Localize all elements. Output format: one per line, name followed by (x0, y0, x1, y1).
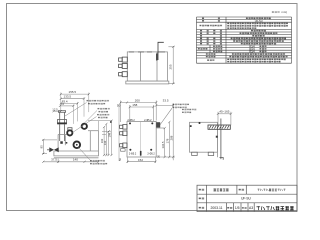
front view mounting holes (129, 122, 153, 150)
svg-text:37.5: 37.5 (51, 157, 57, 161)
front view right dimensions (157, 122, 176, 157)
left view right dims (88, 121, 112, 156)
side view feet (192, 152, 214, 155)
left view small bolt (60, 141, 63, 144)
svg-text:140: 140 (73, 157, 78, 161)
spec table grid (197, 17, 292, 63)
title block label 尺度 (227, 207, 232, 209)
left view bottom dims (43, 159, 98, 164)
dimension end ticks (42, 93, 232, 163)
svg-text:2-Φ5.2: 2-Φ5.2 (147, 153, 155, 156)
front view hole labels (127, 119, 155, 155)
callout solar return (87, 100, 110, 102)
front view body (127, 122, 156, 158)
top view left connectors (119, 57, 128, 77)
title block label 型式 (199, 197, 204, 199)
svg-text:A3: A3 (249, 206, 253, 210)
title block label 品名 (239, 189, 244, 191)
title block label 名称 (199, 189, 204, 191)
svg-text:200: 200 (135, 99, 140, 103)
side view wall bracket bar (208, 125, 230, 129)
svg-text:152: 152 (138, 158, 143, 162)
dimension 33.5 (156, 103, 173, 160)
svg-text:50: 50 (117, 103, 121, 107)
side view top screw dot (199, 122, 201, 124)
company name リンナイ株式会社 (257, 206, 294, 210)
svg-text:1/5: 1/5 (235, 206, 240, 210)
svg-text:33.5: 33.5 (163, 99, 169, 103)
side view body (190, 122, 218, 157)
svg-text:2-Φ5.2: 2-Φ5.2 (129, 153, 137, 156)
svg-text:2-Φ5.2: 2-Φ5.2 (127, 119, 135, 122)
front view left extension line (118, 104, 120, 161)
svg-text:45~165: 45~165 (219, 109, 229, 113)
svg-text:85: 85 (39, 145, 43, 149)
front view bottom dimensions (128, 157, 156, 163)
dimension 45-165 (218, 112, 231, 126)
top view body (126, 52, 169, 84)
dimension 200 (121, 101, 157, 123)
top view louver marks (129, 51, 165, 53)
svg-text:30: 30 (157, 155, 161, 159)
units note (272, 11, 280, 13)
title block name 外形寸法図 (214, 189, 229, 192)
svg-text:132.5: 132.5 (161, 141, 165, 148)
svg-text:155.5: 155.5 (69, 90, 77, 94)
bracket note text (173, 104, 189, 106)
callout stop valve (90, 160, 105, 162)
side view screws (216, 136, 218, 138)
left view drain valve (49, 147, 58, 152)
dimension 72 (60, 105, 73, 107)
left view port big (74, 142, 81, 149)
wall note text (182, 109, 196, 111)
left view port mid (67, 130, 72, 135)
svg-text:UF-SU: UF-SU (241, 197, 251, 201)
bracket note leader (160, 108, 173, 125)
svg-text:133.5: 133.5 (64, 95, 72, 99)
callout water supply (97, 114, 109, 116)
callout hot water (98, 108, 110, 110)
front view center mark (140, 151, 142, 156)
dimension 83.4 (61, 102, 78, 104)
left view left dimension 85 (42, 140, 57, 154)
svg-text:132: 132 (103, 140, 107, 145)
svg-text:255: 255 (169, 64, 173, 69)
svg-text:mm): mm) (282, 10, 288, 14)
front view drain stub (121, 149, 126, 152)
dimension 155.5 (61, 93, 89, 95)
left view solar pipe (58, 111, 67, 141)
svg-text:2003.11: 2003.11 (210, 206, 222, 210)
title block product ソーラー接続ユニット (258, 189, 286, 191)
left view body (54, 131, 99, 158)
top view height dimension 255 (168, 47, 174, 84)
front view left connectors (120, 125, 127, 148)
title block grid (197, 185, 297, 211)
left view port upper-right (82, 124, 87, 129)
dimension 158 (130, 105, 154, 121)
spec table text (202, 17, 220, 19)
left view callout leaders (65, 103, 97, 161)
title block label サイズ (242, 207, 247, 209)
dimension 133.5 (61, 98, 84, 100)
svg-text:158: 158 (132, 103, 137, 107)
svg-text:R3/4: R3/4 (249, 50, 255, 54)
top view mounting bracket (157, 42, 164, 60)
front view center line (140, 122, 142, 157)
side view hook bolt (220, 119, 224, 160)
svg-text:288: 288 (169, 135, 173, 140)
svg-text:199.5: 199.5 (107, 130, 111, 137)
title block label 作成 (199, 207, 204, 209)
svg-text:UF-SU: UF-SU (255, 19, 263, 23)
left view pipe nut dark (57, 122, 67, 124)
svg-text:12.5: 12.5 (52, 107, 58, 111)
front view right bracket (156, 122, 160, 127)
svg-text:2-Φ5.2: 2-Φ5.2 (144, 119, 152, 122)
left view port mid cap (68, 128, 72, 131)
